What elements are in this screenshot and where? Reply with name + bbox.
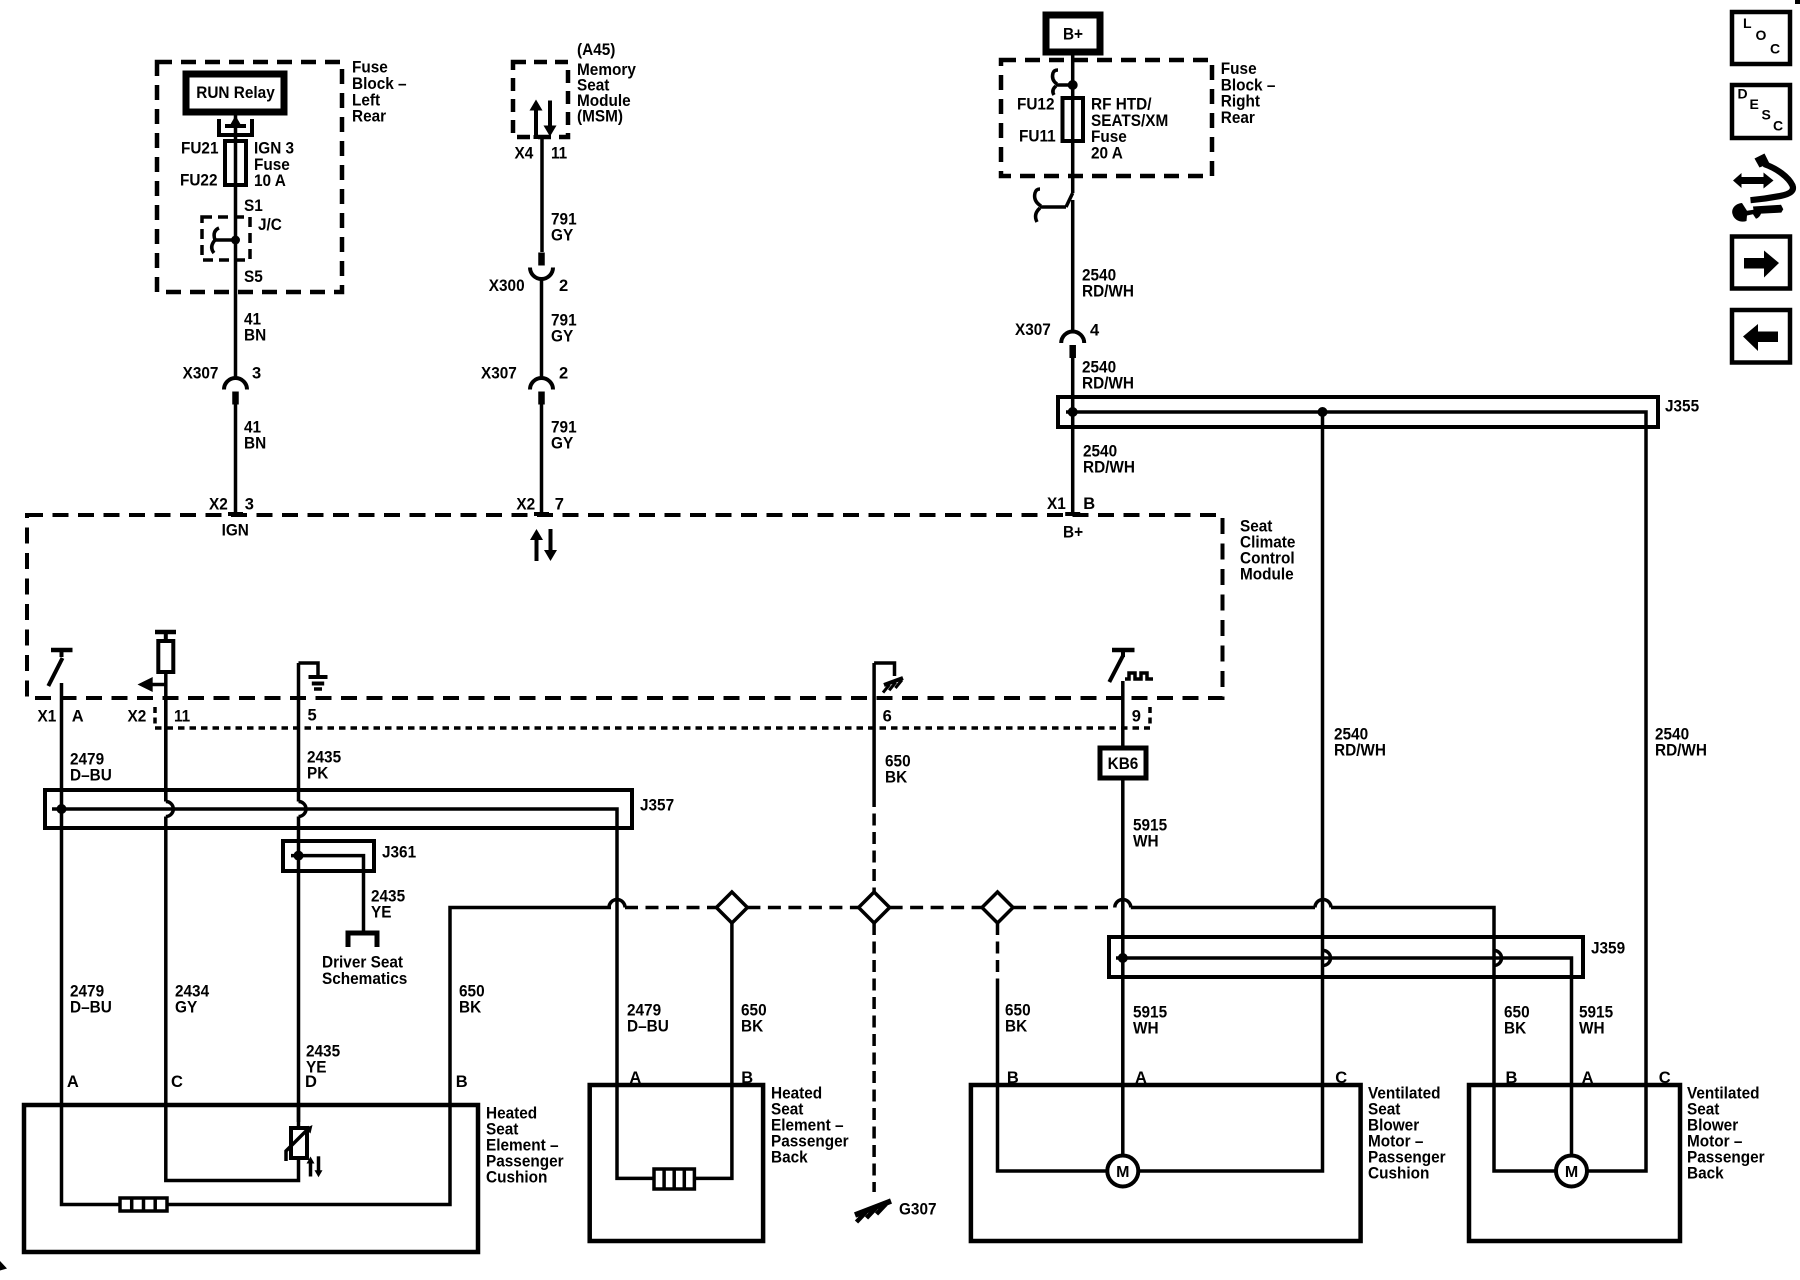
svg-text:11: 11 [174,708,190,726]
node: 5915 WH tap on J359 [1118,953,1128,963]
svg-text:L: L [1743,15,1752,31]
svg-text:G307: G307 [899,1201,937,1219]
wire 2540 RD/WH (J355 middle drop to blower cushion pin C) [1321,412,1325,1085]
ground G307 [855,1201,891,1215]
svg-text:WH: WH [1579,1020,1605,1038]
svg-text:PK: PK [307,765,328,783]
wire 650 BK (diamond down to blower cushion pin B) [996,923,1000,985]
wire: RUN relay output [234,112,238,240]
internal wires to motor [998,1085,1107,1171]
svg-text:2: 2 [559,365,568,383]
svg-text:3: 3 [252,365,261,383]
connector X300 pin 2 [530,268,553,280]
svg-text:D–BU: D–BU [627,1018,669,1036]
svg-text:D: D [1738,86,1748,102]
ground bus hops over 2479 D-BU wire [609,900,625,908]
wire 650 BK (pin 6 toward G307) [872,698,876,795]
wire 2479 D-BU (J357 bus end down to heated back pin A) [615,828,619,1085]
wire 5915 WH (J359 bus end down to blower back pin A) [1570,977,1574,1085]
svg-text:BK: BK [885,769,907,787]
junction block J355 [1058,397,1658,427]
svg-text:A: A [67,1073,79,1091]
svg-text:X2: X2 [128,708,147,726]
splice diamond (heated back ground) [716,892,747,923]
svg-text:S5: S5 [244,268,263,286]
icon button LOC [1732,12,1790,64]
svg-text:Driver Seat: Driver Seat [322,954,403,972]
svg-text:BK: BK [741,1018,763,1036]
svg-text:BK: BK [1005,1018,1027,1036]
page corner mark bottom-left [0,1261,7,1271]
wire 2434 GY passes through J357 (bump) [166,802,174,817]
wire 791 GY (X300 to X307) [540,279,544,378]
svg-text:10 A: 10 A [254,172,286,190]
splice tap hook below fuse block [1066,193,1073,207]
svg-text:D: D [305,1073,317,1091]
icon button: forward arrow [1732,237,1790,289]
svg-text:(MSM): (MSM) [577,108,623,126]
wire 5915 WH (pin 9 to KB6) [1121,698,1125,748]
svg-text:J359: J359 [1591,940,1625,958]
fuse FU12/FU11 RF HTD/SEATS/XM Fuse 20 A [1063,98,1084,141]
svg-text:B+: B+ [1063,524,1083,542]
icon button DESC [1732,85,1790,138]
icon button: back arrow [1732,310,1790,363]
module internal data arrows at X2-7 [535,538,539,561]
module Seat Climate Control Module (dashed box) [27,515,1223,698]
node: 2435 tap on J361 [294,851,304,861]
svg-text:Block –: Block – [352,75,407,93]
svg-text:FU22: FU22 [180,172,218,190]
svg-text:Fuse: Fuse [352,59,388,77]
J357 internal bus bar [52,809,617,828]
svg-text:X1: X1 [1047,495,1066,513]
svg-text:RD/WH: RD/WH [1083,459,1135,477]
svg-text:J357: J357 [640,797,674,815]
wire 2540 RD/WH (J355 right drop to blower back pin C) [1644,427,1648,1085]
svg-text:X1: X1 [38,708,57,726]
ground bus dashed segment (right) [1013,906,1115,910]
svg-text:A: A [72,708,84,726]
svg-text:GY: GY [551,435,573,453]
wire 2540 RD/WH (J355 to module pin X1-B) [1071,412,1075,515]
svg-text:RF HTD/: RF HTD/ [1091,96,1152,114]
internal wire element to pin B [694,1085,732,1178]
J361 internal bus bar [291,856,364,871]
svg-text:7: 7 [555,496,564,514]
junction block J361 [283,841,374,871]
svg-text:B: B [741,1069,753,1087]
svg-text:A: A [629,1069,641,1087]
wire 650 BK (diamond down to heated back pin B) [730,923,734,1085]
svg-text:4: 4 [1090,322,1100,340]
motor M (blower cushion) [1107,1156,1138,1187]
wire 2435 YE (J361 branch to driver seat schematics) [362,871,366,933]
wire 2435 PK (through J357 to J361) [297,817,301,856]
svg-text:(A45): (A45) [577,41,615,59]
connector X2 extent (dotted line with end ticks) [155,726,1150,730]
svg-text:M: M [1116,1164,1129,1181]
thermistor (seat temperature sensor) [297,1105,301,1128]
ground bus hops over 2540 RD/WH wire [1315,900,1331,908]
svg-text:Back: Back [771,1149,808,1167]
svg-text:Left: Left [352,91,381,109]
wire 2479 D-BU (J357 dot down to heated cushion pin A) [60,809,64,1105]
svg-text:B: B [1007,1069,1019,1087]
svg-text:Block –: Block – [1221,76,1276,94]
svg-text:WH: WH [1133,833,1159,851]
svg-text:RD/WH: RD/WH [1082,283,1134,301]
wire 650 BK passes through J359 (bump) [1494,951,1502,966]
component box: Heated Seat Element - Passenger Cushion [24,1105,478,1252]
svg-text:M: M [1565,1164,1578,1181]
module (A45) Memory Seat Module MSM (dashed box) [513,62,568,137]
svg-text:GY: GY [551,328,573,346]
splice symbol inside J/C [215,238,236,242]
node: 2479 D-BU tap on J357 [57,804,67,814]
wire 5915 WH (KB6 to J359) [1121,778,1125,958]
wire 2479 D-BU (pin X1-A to J357) [60,698,64,809]
motor M (blower back) [1556,1156,1587,1187]
svg-text:Module: Module [1240,566,1294,584]
svg-text:X4: X4 [515,145,535,163]
svg-text:9: 9 [1132,708,1141,726]
svg-text:FU12: FU12 [1017,96,1055,114]
thermistor flow arrows [309,1162,313,1177]
svg-text:B+: B+ [1063,26,1083,44]
svg-text:C: C [1773,118,1783,134]
svg-text:J355: J355 [1665,398,1699,416]
svg-text:B: B [456,1073,468,1091]
svg-text:RUN Relay: RUN Relay [196,84,275,102]
ground bus dashed segment [747,906,858,910]
connector X307 pin 3 [224,378,247,390]
svg-text:A: A [1135,1069,1147,1087]
internal wire element to pin B [167,1105,450,1205]
junction J/C dashed box with splice S1/S5 [202,217,250,260]
wire 650 BK (heated cushion pin B up to ground bus) [450,908,611,1106]
svg-text:6: 6 [883,708,892,726]
svg-text:C: C [1770,41,1780,57]
junction block J359 [1109,937,1583,977]
svg-text:GY: GY [551,227,573,245]
svg-text:X2: X2 [516,496,535,514]
page corner mark top-right [1795,0,1800,4]
svg-text:X307: X307 [481,365,517,383]
svg-text:5: 5 [308,707,317,725]
wire 791 GY (X307 to module pin X2-7) [540,403,544,515]
relay RUN Relay [186,74,284,112]
internal ground at pin 6 [874,663,894,676]
component box: Ventilated Seat Blower Motor - Passenger Back [1469,1085,1680,1241]
internal wires to motor [1494,1085,1556,1171]
svg-text:A: A [1582,1069,1594,1087]
wire 5915 WH (J359 to blower cushion pin A) [1121,958,1125,1085]
svg-text:20 A: 20 A [1091,144,1123,162]
svg-text:IGN 3: IGN 3 [254,140,294,158]
pin X4 | 11 of MSM [534,135,551,139]
svg-text:11: 11 [551,145,567,163]
power node B+ [1046,15,1100,52]
wire 650 BK (diamond down to G307) [872,923,876,1192]
svg-text:Cushion: Cushion [1368,1165,1429,1183]
svg-text:Back: Back [1687,1165,1724,1183]
svg-text:BK: BK [1504,1020,1526,1038]
svg-text:GY: GY [175,999,197,1017]
wire 41 BN to module pin X2-3 [234,403,238,515]
internal wire pin A to heater element [617,1085,654,1178]
svg-text:Schematics: Schematics [322,970,407,988]
icon: diagnostic tools (arrows + wrench) [1733,173,1774,189]
option code KB6 [1100,748,1146,778]
wire 650 BK (ground bus to blower back pin B) [1331,908,1494,1086]
svg-text:Rear: Rear [352,108,387,126]
internal sense resistor + signal arrow at pin X2-11 [155,630,176,635]
svg-text:C: C [1335,1069,1347,1087]
internal wire pin A to heater element [62,1105,121,1205]
svg-text:YE: YE [371,904,392,922]
svg-text:Fuse: Fuse [1221,60,1257,78]
wire 2435 PK passes through J357 (bump) [299,802,307,817]
fuse block - left rear (dashed enclosure) [157,62,342,292]
svg-text:SEATS/XM: SEATS/XM [1091,112,1168,130]
ground bus dashed segment [890,906,982,910]
internal wire thermistor to pin C [166,1105,299,1181]
fuse FU21/FU22 IGN 3 Fuse 10 A [225,141,246,185]
svg-text:E: E [1750,96,1759,112]
wire 2540 RD/WH passes through J359 (bump) [1323,951,1331,966]
svg-text:Fuse: Fuse [1091,128,1127,146]
splice diamond (G307 tap) [859,892,890,923]
svg-text:B: B [1506,1069,1518,1087]
ground bus hops over 5915 WH wire [1115,900,1131,908]
svg-text:BN: BN [244,435,266,453]
svg-text:FU21: FU21 [181,140,219,158]
svg-text:J361: J361 [382,844,416,862]
svg-text:IGN: IGN [222,522,249,540]
ground bus dashed segment (left) [625,906,716,910]
ground bus solid segment [1131,906,1315,910]
wire 2540 RD/WH (fuse to X307) [1071,200,1075,332]
connector X307 pin 2 [530,378,553,390]
splice diamond (blower cushion ground) [982,892,1013,923]
node: B+ tap on J355 [1068,407,1078,417]
svg-text:B: B [1083,495,1095,513]
svg-text:Rear: Rear [1221,109,1256,127]
svg-text:J/C: J/C [258,216,282,234]
svg-text:Right: Right [1221,93,1261,111]
J359 internal bus bar [1116,958,1572,977]
wire 791 GY (MSM to X300) [540,137,544,252]
wire 2434 GY (through J357 down to heated cushion pin C) [164,817,168,1106]
fuse block - right rear (dashed enclosure) [1001,60,1212,176]
svg-text:WH: WH [1133,1020,1159,1038]
svg-text:BN: BN [244,327,266,345]
internal driver switch at pin X1-A [51,648,73,653]
svg-text:C: C [171,1073,183,1091]
svg-text:X2: X2 [209,496,228,514]
J355 internal bus bar [1066,412,1646,427]
internal PWM driver at pin 9 [1112,648,1135,653]
svg-text:S: S [1762,107,1771,123]
wire 2540 RD/WH (X307 to J355) [1071,357,1075,412]
wire 2435 YE (J361 down to heated cushion pin D) [297,856,301,1122]
wire B+ into fuse block [1071,52,1075,193]
connector X307 pin 4 [1061,332,1084,344]
svg-text:O: O [1756,27,1767,43]
svg-text:S1: S1 [244,197,263,215]
relay terminal bracket + arrow [219,119,252,135]
svg-text:X300: X300 [489,277,525,295]
component box: Ventilated Seat Blower Motor - Passenger Cushion [971,1085,1361,1241]
svg-text:C: C [1659,1069,1671,1087]
splice tap hook at B+ bus [1056,83,1073,87]
wire 2435 PK (pin 5 to J357) [297,698,301,802]
svg-text:FU11: FU11 [1019,128,1056,146]
svg-text:D–BU: D–BU [70,999,112,1017]
svg-text:D–BU: D–BU [70,767,112,785]
svg-text:Cushion: Cushion [486,1169,547,1187]
svg-text:RD/WH: RD/WH [1082,375,1134,393]
svg-text:X307: X307 [1015,321,1051,339]
heater element (back) [654,1169,694,1189]
junction block J357 [45,790,632,828]
svg-text:2: 2 [559,277,568,295]
component box: Heated Seat Element - Passenger Back [590,1085,763,1241]
svg-text:X307: X307 [183,365,219,383]
internal ground at pin 5 [299,663,319,675]
svg-text:3: 3 [245,496,254,514]
node: blower cushion feed tap on J355 [1318,407,1328,417]
MSM bidirectional data arrows [534,109,538,136]
heater element (cushion) [120,1198,167,1211]
wire: splice to S5 and down [234,240,238,377]
svg-text:KB6: KB6 [1108,755,1139,773]
svg-text:RD/WH: RD/WH [1655,742,1707,760]
off-page connector: Driver Seat Schematics [348,933,377,947]
svg-text:RD/WH: RD/WH [1334,742,1386,760]
svg-text:BK: BK [459,999,481,1017]
wire 2434 GY (pin X2-11 down) [164,698,168,802]
